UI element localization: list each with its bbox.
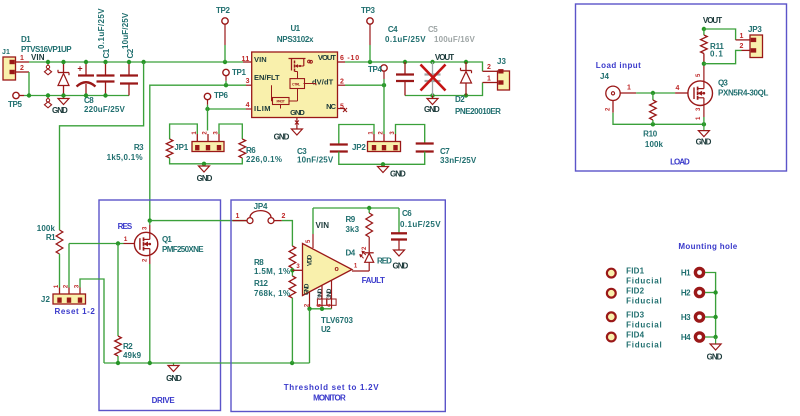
- svg-text:GND: GND: [390, 170, 406, 179]
- svg-text:1.5M, 1%: 1.5M, 1%: [254, 267, 290, 276]
- svg-text:2: 2: [282, 213, 286, 220]
- svg-text:0.1uF/25V: 0.1uF/25V: [400, 220, 441, 229]
- svg-text:49k9: 49k9: [123, 351, 142, 360]
- svg-text:6 -10: 6 -10: [340, 55, 360, 62]
- svg-text:H1: H1: [681, 269, 691, 278]
- svg-text:Mounting hole: Mounting hole: [678, 242, 737, 251]
- svg-text:R1: R1: [46, 233, 56, 242]
- svg-text:H4: H4: [681, 333, 691, 342]
- svg-text:Reset 1-2: Reset 1-2: [55, 307, 96, 316]
- svg-text:TP1: TP1: [232, 68, 247, 77]
- svg-text:JP3: JP3: [748, 25, 762, 34]
- svg-text:220uF/25V: 220uF/25V: [84, 105, 125, 114]
- svg-text:Threshold set to 1.2V: Threshold set to 1.2V: [284, 383, 380, 392]
- svg-text:FID4: FID4: [626, 331, 645, 340]
- svg-text:1: 1: [487, 76, 491, 83]
- svg-text:RED: RED: [377, 257, 392, 266]
- svg-text:GND: GND: [274, 133, 290, 142]
- svg-text:0.1uF/25V: 0.1uF/25V: [385, 35, 426, 44]
- svg-text:2: 2: [740, 43, 744, 50]
- svg-text:Fiducial: Fiducial: [626, 297, 662, 306]
- svg-text:11: 11: [242, 56, 250, 63]
- svg-text:JP2: JP2: [352, 143, 366, 152]
- svg-text:GND: GND: [166, 374, 182, 383]
- svg-text:VIN: VIN: [316, 221, 330, 230]
- svg-text:D1: D1: [21, 35, 31, 44]
- svg-text:GND: GND: [290, 108, 305, 117]
- svg-text:RES: RES: [118, 222, 133, 231]
- svg-text:TP6: TP6: [214, 91, 229, 100]
- svg-text:4: 4: [675, 85, 679, 92]
- svg-text:Q3: Q3: [718, 79, 728, 88]
- svg-text:GND: GND: [696, 138, 712, 147]
- svg-text:FID3: FID3: [626, 310, 645, 319]
- svg-text:2: 2: [487, 64, 491, 71]
- svg-text:100uF/16V: 100uF/16V: [434, 35, 475, 44]
- svg-text:J3: J3: [497, 57, 507, 66]
- svg-text:1: 1: [235, 213, 239, 220]
- svg-text:J4: J4: [600, 72, 610, 81]
- svg-text:C5: C5: [428, 25, 438, 34]
- svg-text:10uF/25V: 10uF/25V: [121, 12, 130, 49]
- svg-text:R3: R3: [134, 143, 144, 152]
- svg-text:VDD: VDD: [308, 254, 314, 266]
- svg-text:PNE20010ER: PNE20010ER: [455, 107, 501, 116]
- svg-text:5: 5: [340, 103, 344, 110]
- svg-text:PMF250XNE: PMF250XNE: [162, 245, 204, 254]
- svg-text:Load input: Load input: [596, 61, 641, 70]
- svg-text:D4: D4: [346, 249, 356, 258]
- svg-text:C2: C2: [126, 48, 135, 58]
- svg-text:+: +: [77, 64, 82, 74]
- svg-text:FID1: FID1: [626, 267, 645, 276]
- svg-text:0.1uF/25V: 0.1uF/25V: [97, 8, 106, 49]
- svg-text:VOUT: VOUT: [435, 53, 454, 62]
- svg-text:33nF/25V: 33nF/25V: [440, 156, 477, 165]
- svg-text:R12: R12: [254, 279, 269, 288]
- svg-text:CTRL: CTRL: [292, 83, 301, 87]
- svg-text:C6: C6: [402, 209, 412, 218]
- svg-text:JP1: JP1: [174, 143, 188, 152]
- svg-text:H2: H2: [681, 289, 691, 298]
- svg-text:U1: U1: [290, 24, 300, 33]
- svg-text:1: 1: [627, 85, 631, 92]
- svg-text:3: 3: [246, 78, 250, 85]
- svg-text:Fiducial: Fiducial: [626, 320, 662, 329]
- svg-text:D2: D2: [455, 95, 465, 104]
- svg-text:dV/dT: dV/dT: [312, 78, 334, 87]
- svg-text:3k3: 3k3: [346, 225, 360, 234]
- svg-text:GND: GND: [393, 262, 409, 271]
- svg-text:U2: U2: [321, 325, 331, 334]
- svg-text:1: 1: [20, 55, 24, 62]
- svg-text:C4: C4: [388, 25, 398, 34]
- svg-text:R10: R10: [643, 130, 658, 139]
- svg-text:TLV6703: TLV6703: [321, 316, 353, 325]
- svg-text:C7: C7: [440, 147, 450, 156]
- svg-text:226,0.1%: 226,0.1%: [246, 155, 282, 164]
- svg-text:R8: R8: [254, 258, 264, 267]
- svg-text:TP4: TP4: [368, 65, 383, 74]
- svg-text:NPS3102x: NPS3102x: [277, 35, 314, 44]
- svg-text:VIN: VIN: [254, 55, 267, 64]
- svg-text:0.1: 0.1: [710, 50, 724, 59]
- svg-text:GND: GND: [197, 174, 213, 183]
- svg-text:MONITOR: MONITOR: [313, 394, 346, 403]
- svg-text:VIN: VIN: [31, 53, 45, 62]
- svg-text:GND: GND: [424, 105, 440, 114]
- svg-text:Fiducial: Fiducial: [626, 341, 662, 350]
- svg-text:FAULT: FAULT: [362, 276, 385, 285]
- svg-text:TP5: TP5: [8, 100, 23, 109]
- svg-text:TP2: TP2: [216, 6, 231, 15]
- svg-text:ILIM: ILIM: [254, 104, 271, 113]
- svg-text:JP4: JP4: [254, 202, 268, 211]
- svg-text:PXN5R4-30QL: PXN5R4-30QL: [718, 89, 769, 98]
- svg-text:Q1: Q1: [162, 235, 172, 244]
- svg-text:H3: H3: [681, 313, 691, 322]
- svg-text:TP3: TP3: [361, 6, 376, 15]
- svg-text:DRIVE: DRIVE: [152, 396, 176, 405]
- svg-text:R6: R6: [246, 146, 256, 155]
- svg-text:EN/FLT: EN/FLT: [254, 73, 280, 82]
- svg-text:PROT: PROT: [277, 100, 286, 104]
- svg-text:R9: R9: [346, 215, 356, 224]
- svg-text:GND: GND: [707, 353, 723, 362]
- svg-text:o: o: [335, 266, 339, 273]
- svg-text:LOAD: LOAD: [670, 158, 690, 167]
- svg-text:10nF/25V: 10nF/25V: [297, 155, 334, 164]
- svg-text:Fiducial: Fiducial: [626, 277, 662, 286]
- svg-text:PTVS16VP1UP: PTVS16VP1UP: [21, 45, 72, 54]
- svg-text:1k5,0.1%: 1k5,0.1%: [107, 153, 143, 162]
- svg-text:VOUT: VOUT: [703, 16, 722, 25]
- svg-text:100k: 100k: [37, 224, 56, 233]
- svg-text:100k: 100k: [645, 140, 664, 149]
- svg-text:FID2: FID2: [626, 287, 645, 296]
- svg-text:R2: R2: [123, 342, 133, 351]
- svg-text:1: 1: [740, 33, 744, 40]
- svg-text:768k, 1%: 768k, 1%: [254, 289, 290, 298]
- svg-text:GND: GND: [52, 106, 68, 115]
- svg-text:1: 1: [124, 236, 128, 243]
- svg-text:VOUT: VOUT: [318, 53, 336, 62]
- svg-text:4: 4: [246, 102, 250, 109]
- svg-text:J2: J2: [41, 295, 51, 304]
- svg-text:2: 2: [340, 79, 344, 86]
- svg-text:C1: C1: [102, 48, 111, 58]
- svg-text:J1: J1: [2, 49, 10, 56]
- svg-text:GND: GND: [318, 288, 324, 300]
- svg-text:2: 2: [20, 65, 24, 72]
